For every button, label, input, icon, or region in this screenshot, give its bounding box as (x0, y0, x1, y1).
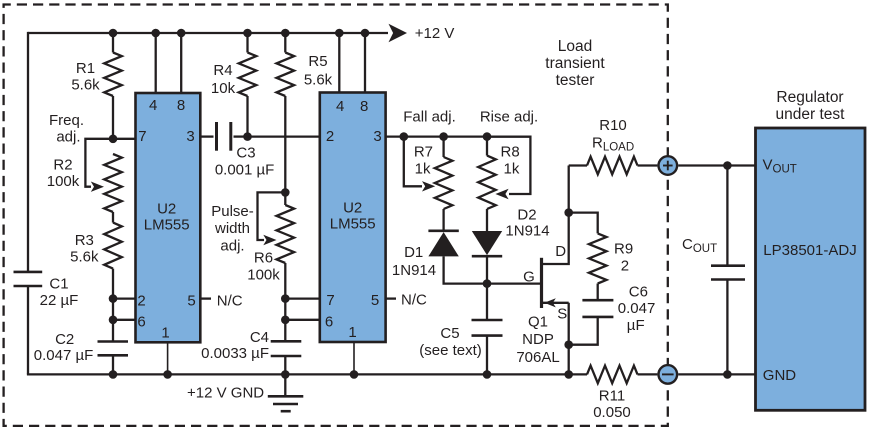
potentiometer R2 (104, 154, 122, 212)
wire R3 to pin 2 node (112, 269, 114, 299)
wire C5 drop (486, 284, 488, 320)
label R11 0.050 (593, 388, 631, 422)
svg-text:R6: R6 (254, 250, 273, 267)
svg-text:R8: R8 (501, 144, 520, 161)
svg-text:LM555: LM555 (330, 216, 376, 233)
label R3 5.6k (70, 232, 99, 266)
node C5-bus (483, 370, 492, 379)
wire to R7 (442, 137, 444, 157)
pin 1 label U2b (348, 324, 356, 341)
label COUT (682, 236, 717, 255)
pin 6 label U2b (325, 314, 333, 331)
svg-text:6: 6 (325, 314, 333, 331)
svg-text:NDP: NDP (522, 331, 554, 348)
svg-text:R9: R9 (614, 241, 633, 258)
potentiometer R6 (277, 205, 295, 263)
R7 wiper arrow (422, 181, 435, 191)
label C3 0.001uF (215, 145, 275, 179)
node C4-bus (281, 370, 290, 379)
wire to pin 6 U2b (285, 319, 320, 321)
label +12 V GND (187, 385, 264, 402)
svg-text:width: width (214, 220, 250, 237)
node GND/COUT (723, 370, 732, 379)
svg-text:4: 4 (149, 97, 157, 114)
svg-text:2: 2 (326, 128, 334, 145)
pin label GND (763, 367, 797, 384)
diode D1 (1N914, cathode up) (428, 231, 458, 257)
node C2-bus (109, 370, 118, 379)
label C1 (40, 276, 79, 310)
svg-text:8: 8 (177, 97, 185, 114)
label D1 1N914 (392, 244, 436, 279)
pin 1 label U2a (161, 325, 169, 342)
svg-text:R4: R4 (213, 62, 232, 79)
wire drain node up (568, 166, 570, 213)
wire pin2/6 node down (112, 299, 114, 342)
wire left rail upper (27, 32, 29, 272)
label C5 (see text) (419, 325, 482, 359)
wire to pin 6 U2a (113, 319, 136, 321)
wire R8 to D2 (486, 209, 488, 231)
wire rail to R5 (284, 33, 286, 53)
wire ground bus left (27, 373, 587, 375)
capacitor C5 (472, 320, 503, 336)
svg-text:10k: 10k (211, 80, 236, 97)
wire pin1 U2b to bus (353, 342, 355, 374)
svg-text:C1: C1 (49, 276, 68, 293)
terminal + (VOUT sense) (659, 156, 678, 175)
svg-text:C3: C3 (236, 145, 255, 162)
svg-text:Load: Load (558, 38, 592, 55)
svg-text:under test: under test (776, 106, 846, 123)
wire C6 to source node (569, 317, 598, 345)
pin 4 label U2b (336, 98, 344, 115)
R8 wiper arrow (495, 189, 508, 199)
op-amp U2b LM555 (timer 2) (320, 93, 386, 343)
node source/C6 junction (564, 340, 573, 349)
svg-text:LP38501-ADJ: LP38501-ADJ (763, 242, 856, 259)
wire pin 8 U2a (180, 33, 182, 93)
node rail-R4 (243, 29, 252, 38)
svg-text:100k: 100k (247, 266, 280, 283)
wire node A to pin 7 U2a (113, 138, 136, 140)
svg-text:N/C: N/C (217, 293, 243, 310)
capacitor C6 (582, 300, 613, 317)
resistor R9 (589, 233, 607, 283)
label C2 (34, 331, 94, 364)
svg-text:3: 3 (373, 128, 381, 145)
wire node C to R6 (284, 192, 286, 205)
ground symbol (268, 374, 304, 411)
svg-text:Regulator: Regulator (776, 89, 843, 106)
node pin6 U2b (281, 316, 290, 325)
transistor Q1 body bar (540, 258, 543, 308)
node pin6 U2a (109, 316, 118, 325)
wire gate node to Q1 gate (487, 282, 542, 284)
svg-text:22 µF: 22 µF (40, 292, 79, 309)
svg-text:1: 1 (161, 325, 169, 342)
svg-text:Rise adj.: Rise adj. (480, 109, 538, 126)
wire R6 wiper loop (258, 192, 286, 240)
svg-text:5: 5 (187, 293, 195, 310)
svg-text:tester: tester (556, 72, 595, 89)
svg-text:1N914: 1N914 (392, 262, 436, 279)
label Q1 NDP 706AL (516, 314, 559, 366)
wire R7 wiper branch (404, 137, 422, 187)
svg-text:Pulse-: Pulse- (211, 203, 254, 220)
label R8 1k (501, 144, 520, 178)
label N/C U2a (217, 293, 243, 310)
wire COUT bottom (726, 280, 728, 375)
label R2 100k (47, 157, 80, 191)
label Freq. adj. (49, 112, 84, 146)
node rail-pin4 U2a (151, 29, 160, 38)
pin 3 label U2b (373, 128, 381, 145)
wire R2 to R3 (112, 212, 114, 223)
node A (R1/R2/pin7) (109, 135, 118, 144)
svg-text:1: 1 (348, 324, 356, 341)
wire D1 to gate wire (444, 256, 487, 283)
pin 5 label U2b (371, 292, 379, 309)
label R6 100k (247, 250, 280, 284)
label C6 0.047uF (618, 284, 656, 334)
pin 3 label U2a (186, 128, 194, 145)
pin 6 label U2a (137, 314, 145, 331)
node drain junction (564, 208, 573, 217)
resistor R11 (587, 366, 638, 384)
svg-text:7: 7 (326, 292, 334, 309)
svg-text:2: 2 (137, 293, 145, 310)
regulator under test LP38501-ADJ (756, 128, 866, 410)
node pin7 U2b (281, 294, 290, 303)
Q1 source lead (542, 298, 569, 307)
svg-text:D2: D2 (517, 207, 536, 224)
label S (557, 306, 567, 323)
svg-text:8: 8 (360, 98, 368, 115)
wire ground bus to regulator (678, 373, 755, 375)
node pin1 U2b bus (350, 370, 359, 379)
wire +12 V top rail (28, 32, 388, 34)
svg-text:1N914: 1N914 (505, 223, 549, 240)
label R4 10k (211, 62, 236, 97)
terminal - (GND sense) (659, 365, 678, 384)
svg-text:D: D (555, 243, 566, 260)
resistor R3 (104, 223, 122, 269)
pin 2 label U2b (326, 128, 334, 145)
wire node B to pin2 U2b (248, 135, 320, 137)
resistor R5 (277, 53, 295, 97)
svg-text:3: 3 (186, 128, 194, 145)
svg-text:0.0033 µF: 0.0033 µF (201, 345, 269, 362)
+12 V supply arrow (389, 24, 408, 42)
label +12 V (415, 25, 455, 42)
svg-text:1k: 1k (415, 161, 431, 178)
label Rise adj. (480, 109, 538, 126)
svg-text:5.6k: 5.6k (71, 77, 100, 94)
label Fall adj. (403, 109, 456, 126)
pin 5 label U2a (187, 293, 195, 310)
pin 8 label U2a (177, 97, 185, 114)
node pin1 U2a bus (163, 370, 172, 379)
wire R2 wiper loop (85, 139, 113, 187)
label Pulse-width adj. (211, 203, 254, 255)
svg-text:C5: C5 (440, 325, 459, 342)
label R1 5.6k (71, 60, 100, 94)
node B (C3/R4) (243, 132, 252, 141)
potentiometer R8 (478, 156, 496, 209)
wire pin3 U2b row (386, 135, 531, 137)
wire pin3 U2a to C3 (200, 135, 213, 137)
node R7 top (439, 132, 448, 141)
capacitor C3 (217, 122, 231, 151)
node VOUT/COUT (723, 161, 732, 170)
wire source down to bus (568, 303, 570, 375)
svg-text:N/C: N/C (401, 292, 427, 309)
svg-text:Freq.: Freq. (49, 112, 84, 129)
node fall-left (400, 132, 409, 141)
wire pin 4 U2a (155, 33, 157, 93)
R6 wiper arrow (263, 235, 276, 245)
Q1 drain lead (542, 213, 569, 264)
svg-text:C4: C4 (250, 329, 269, 346)
svg-text:adj.: adj. (220, 238, 244, 255)
svg-text:adj.: adj. (56, 129, 80, 146)
label R5 5.6k (304, 53, 333, 89)
wire to pin 7 U2b (285, 297, 320, 299)
svg-text:0.047: 0.047 (618, 300, 656, 317)
svg-text:U2: U2 (157, 201, 176, 218)
svg-text:0.001 µF: 0.001 µF (215, 162, 275, 179)
wire rail to R4 (246, 33, 248, 53)
resistor R4 (239, 53, 257, 97)
svg-text:6: 6 (137, 314, 145, 331)
label R10 RLOAD (592, 117, 634, 154)
wire C2 to bus (112, 355, 114, 374)
svg-text:C2: C2 (55, 331, 74, 348)
svg-text:1k: 1k (504, 161, 520, 178)
svg-text:0.050: 0.050 (593, 404, 631, 421)
label C4 (201, 329, 269, 362)
pin 2 label U2a (137, 293, 145, 310)
label G (523, 269, 535, 286)
resistor R1 (104, 53, 122, 97)
label N/C U2b (401, 292, 427, 309)
svg-text:5: 5 (371, 292, 379, 309)
diode D2 (1N914, cathode down) (472, 231, 502, 256)
label Regulator under test (776, 89, 846, 123)
wire ground bus right of R11 (638, 373, 658, 375)
svg-text:R10: R10 (599, 117, 627, 134)
wire R10 to + terminal (638, 164, 658, 166)
label R7 1k (414, 144, 433, 178)
node R8 top (483, 132, 492, 141)
svg-text:LM555: LM555 (144, 217, 190, 234)
node rail-R5 (281, 29, 290, 38)
wire to pin 2 U2a (113, 297, 136, 299)
wire pin5 U2b N/C stub (386, 297, 396, 299)
svg-text:4: 4 (336, 98, 344, 115)
pin label VOUT (763, 157, 797, 176)
label D (555, 243, 566, 260)
svg-text:5.6k: 5.6k (304, 72, 333, 89)
wire R5 to node C (284, 96, 286, 192)
label R9 2 (614, 241, 633, 275)
capacitor C1 (14, 272, 43, 286)
pin 7 label U2b (326, 292, 334, 309)
op-amp U2a LM555 (timer 1) (136, 93, 201, 342)
wire to R8 (486, 137, 488, 156)
svg-text:(see text): (see text) (419, 342, 482, 359)
svg-text:100k: 100k (47, 173, 80, 190)
node rail-pin8 U2a (177, 29, 186, 38)
wire C4 to bus (284, 356, 286, 374)
node C (R5/R6/wiper) (281, 188, 290, 197)
wire R6 to pin7 node (284, 263, 286, 299)
wire D2 to gate node (486, 256, 488, 283)
node rail-pin4 U2b (335, 29, 344, 38)
wire R7 to D1 (442, 209, 444, 231)
R2 wiper arrow (91, 182, 104, 192)
wire pin1 U2a to bus (167, 342, 169, 374)
pin 7 label U2a (138, 128, 146, 145)
capacitor C2 (98, 342, 129, 356)
capacitor COUT (711, 266, 745, 280)
label D2 1N914 (505, 207, 549, 240)
wire pin 4 U2b (338, 33, 340, 93)
svg-text:706AL: 706AL (516, 349, 559, 366)
svg-text:R5: R5 (308, 53, 327, 70)
wire R4 to node B (246, 96, 248, 137)
svg-text:C6: C6 (629, 284, 648, 301)
wire R1 to node A (112, 96, 114, 139)
wire pin7/6 node down (284, 299, 286, 342)
node source-bus (564, 370, 573, 379)
svg-text:2: 2 (621, 258, 629, 275)
svg-text:µF: µF (627, 317, 645, 334)
svg-text:R2: R2 (53, 157, 72, 174)
wire C3 to node B (234, 135, 248, 137)
wire rail to R1 (112, 33, 114, 53)
svg-text:G: G (523, 269, 535, 286)
svg-text:R1: R1 (76, 60, 95, 77)
svg-text:R3: R3 (75, 232, 94, 249)
wire pin 8 U2b (364, 33, 366, 93)
svg-text:Fall adj.: Fall adj. (403, 109, 456, 126)
potentiometer R7 (435, 157, 453, 209)
wire R9 to C6 (597, 284, 599, 301)
wire drain node to R9 (569, 213, 598, 234)
svg-text:S: S (557, 306, 567, 323)
pin 8 label U2b (360, 98, 368, 115)
label Load transient tester (545, 38, 605, 89)
wire C5 to bus (486, 336, 488, 375)
wire COUT top (726, 166, 728, 266)
svg-text:GND: GND (763, 367, 797, 384)
capacitor C4 (271, 341, 302, 356)
wire to R10 (569, 164, 587, 166)
svg-text:0.047 µF: 0.047 µF (34, 347, 94, 364)
svg-text:5.6k: 5.6k (70, 249, 99, 266)
svg-text:+12 V GND: +12 V GND (187, 385, 264, 402)
wire pin5 U2a N/C stub (200, 297, 211, 299)
svg-text:Q1: Q1 (528, 314, 548, 331)
node rail-R1 (109, 29, 118, 38)
pin 4 label U2a (149, 97, 157, 114)
wire R8 wiper branch (487, 137, 530, 194)
svg-text:+12 V: +12 V (415, 25, 455, 42)
svg-text:transient: transient (545, 55, 605, 72)
svg-text:U2: U2 (343, 200, 362, 217)
svg-text:R7: R7 (414, 144, 433, 161)
wire + terminal to regulator (678, 164, 755, 166)
dashed enclosure (load transient tester boundary) (4, 5, 668, 426)
resistor R10 (RLOAD) (587, 157, 638, 175)
node gate junction (483, 279, 492, 288)
svg-text:D1: D1 (404, 244, 423, 261)
node rail-pin8 U2b (361, 29, 370, 38)
svg-text:7: 7 (138, 128, 146, 145)
svg-text:R11: R11 (599, 388, 625, 405)
wire left rail lower (27, 286, 29, 374)
node pin2 U2a (109, 294, 118, 303)
